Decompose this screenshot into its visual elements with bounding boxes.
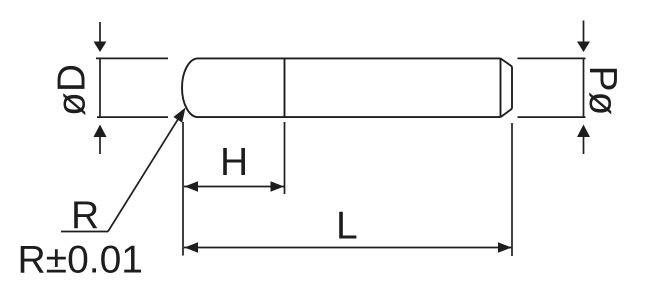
dim P dimension line (583, 58, 585, 117)
dim H right arrowhead (271, 181, 285, 191)
dim P bottom arrowhead (577, 125, 590, 138)
R leader line (108, 113, 182, 232)
dim D top arrowhead (94, 42, 107, 53)
pin section line (H boundary) (284, 58, 286, 117)
dim P extension line top (518, 57, 586, 59)
pin body bottom edge (198, 116, 501, 118)
dim H left extension line (182, 122, 184, 256)
svg-text:L: L (336, 205, 358, 248)
dim L right extension line (511, 123, 513, 256)
svg-text:Pø: Pø (581, 66, 624, 116)
pin radius end (left cap arc) (182, 58, 198, 117)
dim D extension line bottom (97, 116, 168, 118)
dim D extension line top (96, 57, 168, 59)
pin chamfer bottom edge (501, 109, 513, 117)
dim H left arrowhead (185, 181, 199, 191)
svg-text:R: R (71, 194, 99, 237)
dim L dimension line (184, 247, 512, 249)
dim D dimension line (99, 58, 101, 117)
pin end face (511, 67, 513, 109)
dim L right arrowhead (498, 242, 512, 252)
dim P extension line bottom (518, 116, 586, 118)
dim D top arrow shaft (99, 22, 101, 42)
R label underline (61, 231, 108, 233)
pin chamfer start line (500, 58, 502, 117)
dim L left arrowhead (185, 242, 199, 252)
dim H dimension line (184, 186, 284, 188)
dim P top arrow shaft (583, 21, 585, 43)
dim P top arrowhead (577, 42, 590, 53)
R leader arrowhead (173, 108, 185, 123)
pin body top edge (198, 57, 501, 59)
dim P bottom arrow shaft (583, 137, 585, 154)
pin chamfer top edge (501, 58, 513, 66)
svg-text:R±0.01: R±0.01 (18, 239, 143, 282)
svg-text:øD: øD (51, 64, 94, 116)
dim D bottom arrow shaft (99, 137, 101, 154)
dim H right extension line (284, 122, 286, 194)
dim D bottom arrowhead (94, 125, 107, 138)
svg-text:H: H (220, 141, 248, 184)
